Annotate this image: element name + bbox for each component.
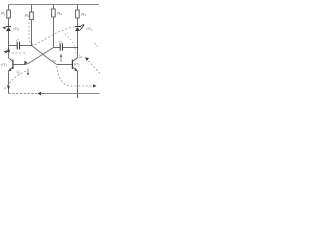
svg-text:R3: R3 <box>57 10 62 16</box>
dashed loop from VT2 base down to rail <box>57 66 93 86</box>
transistor VT2 base bar <box>71 60 73 70</box>
resistor R4 <box>76 10 80 18</box>
dashed current path from R2 down <box>29 22 34 45</box>
dashed curve right edge up <box>88 61 100 74</box>
current arrow at VD2 <box>80 25 84 30</box>
wire rail to R1 <box>8 5 10 11</box>
wire R1 to VD1 <box>8 18 10 26</box>
wire VD2 to collector junction <box>77 31 79 58</box>
arrowhead on right dashed path <box>93 84 97 87</box>
bottom rail dashed left part <box>9 93 38 95</box>
svg-text:iб2: iб2 <box>52 58 56 63</box>
junction right branch with C2 wire <box>77 47 78 48</box>
wire rail to R2 <box>31 5 33 13</box>
resistor R3 <box>52 9 56 17</box>
capacitor C1 plates <box>17 42 19 49</box>
small up arrow right of ib2 <box>60 56 62 62</box>
VT2 emitter arrowhead <box>74 68 77 71</box>
wire C2 to right branch <box>63 47 78 49</box>
wire R2 to node A <box>31 20 33 46</box>
current arrow at VD1 <box>2 26 5 29</box>
wire VT2 emitter to bottom rail <box>77 71 79 94</box>
bottom rail solid right part <box>41 93 100 95</box>
down arrowhead of ib1 arrow <box>27 73 29 76</box>
resistor R1 <box>7 10 11 18</box>
up arrowhead of ib2 arrow <box>60 54 62 57</box>
diode VD2 cathode bar <box>75 26 80 28</box>
cross wire node A to VT2 base <box>32 46 72 65</box>
svg-text:R1: R1 <box>1 11 6 17</box>
wire VT1 emitter to bottom rail <box>8 71 10 94</box>
arrowhead of VD2 current arrow <box>82 24 85 27</box>
svg-text:C1: C1 <box>16 39 21 44</box>
diode VD2 triangle <box>75 27 80 31</box>
wire rail to R4 <box>77 5 79 11</box>
svg-text:iб1: iб1 <box>17 70 21 75</box>
wire rail to R3 <box>53 5 55 10</box>
VT1 emitter arrowhead <box>9 68 12 71</box>
transistor VT1 emitter <box>9 67 13 71</box>
small dashed squiggle right mid <box>95 43 98 48</box>
arrow on cross wire into VT1 base <box>24 61 27 65</box>
dashed branch down to C2 region <box>65 34 76 56</box>
dashed current arc to VD2 <box>35 27 75 45</box>
down arrowhead on left emitter wire <box>7 86 10 90</box>
diode VD1 cathode bar <box>6 26 11 28</box>
svg-text:C2: C2 <box>59 40 64 45</box>
wire collector node to capacitor C1 <box>9 45 17 47</box>
junction dot at bottom rail <box>77 93 79 95</box>
top supply rail wire <box>9 4 100 6</box>
small down arrow right of ib1 <box>27 69 29 75</box>
svg-text:VT1: VT1 <box>1 63 8 68</box>
wire R3 to node B <box>53 17 55 48</box>
resistor R2 <box>30 12 34 20</box>
current arrowhead on bottom rail <box>37 92 41 96</box>
cross wire node B to VT1 base <box>13 48 53 65</box>
transistor VT2 emitter <box>72 67 77 71</box>
svg-text:R4: R4 <box>81 11 86 17</box>
svg-text:R2: R2 <box>25 12 30 18</box>
wire C1 to node A <box>20 45 32 47</box>
svg-text:VD1: VD1 <box>13 27 20 32</box>
dashed path into left branch with arrow <box>7 52 25 54</box>
wire VD1 to collector node <box>8 31 10 58</box>
svg-text:iк2: iк2 <box>79 54 83 59</box>
arrowhead into left branch <box>3 50 7 53</box>
current arrow up on left branch <box>7 47 10 52</box>
transistor VT1 collector <box>9 58 13 62</box>
capacitor C2 plates <box>60 44 62 51</box>
wire node B to capacitor C2 <box>54 47 60 49</box>
node A junction <box>31 45 33 47</box>
emitter stub below rail <box>77 94 79 99</box>
dashed loop left bottom <box>4 71 26 90</box>
svg-text:VT2: VT2 <box>74 63 81 68</box>
wire R4 to VD2 <box>77 18 79 26</box>
transistor VT2 collector <box>72 58 77 62</box>
diode VD1 triangle <box>6 27 11 31</box>
arrowhead pointing to VT2 collector <box>85 57 89 61</box>
svg-text:VD2: VD2 <box>86 27 93 32</box>
transistor VT1 base bar <box>12 60 14 70</box>
